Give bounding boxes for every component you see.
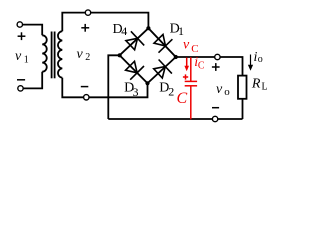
svg-text:v: v <box>183 38 190 53</box>
svg-text:o: o <box>258 54 263 65</box>
svg-text:2: 2 <box>85 52 90 63</box>
svg-text:3: 3 <box>133 85 139 99</box>
svg-text:L: L <box>262 82 268 93</box>
svg-text:v: v <box>77 47 84 62</box>
svg-text:C: C <box>177 90 188 107</box>
svg-text:2: 2 <box>168 85 174 99</box>
svg-text:v: v <box>216 82 223 97</box>
svg-text:v: v <box>15 49 22 64</box>
svg-text:R: R <box>251 76 261 91</box>
svg-text:1: 1 <box>178 24 184 38</box>
svg-text:o: o <box>224 86 230 98</box>
svg-text:1: 1 <box>24 55 29 66</box>
svg-text:C: C <box>191 43 198 55</box>
svg-text:C: C <box>198 61 205 72</box>
svg-text:4: 4 <box>121 24 127 38</box>
